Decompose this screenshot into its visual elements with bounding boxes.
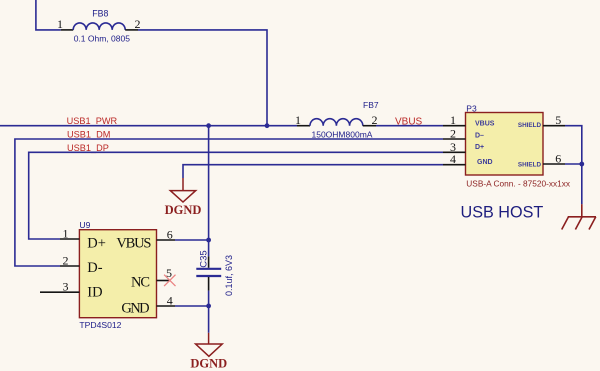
ground symbol DGND (upper): [170, 178, 195, 202]
wire U9 pin 4 to C35 bottom junction: [175, 305, 209, 307]
wire USB1_DP to U9 pin 1 and P3 pin 3: [29, 152, 443, 239]
svg-text:VBUS: VBUS: [116, 235, 151, 251]
wire P3 shield pins to chassis ground: [565, 126, 582, 205]
U9 pin 3 (ID), unconnected stub: [40, 280, 103, 301]
junction: VBUS tap to U9/C35: [206, 123, 211, 128]
svg-text:USB1_DM: USB1_DM: [67, 130, 110, 140]
svg-text:4: 4: [450, 152, 456, 166]
svg-text:2: 2: [135, 17, 141, 31]
svg-text:1: 1: [295, 113, 301, 127]
svg-text:1: 1: [57, 17, 63, 31]
junction at shield bus: [579, 162, 584, 167]
svg-text:D–: D–: [475, 132, 484, 139]
wire DGND to P3 pin 4 (GND): [183, 165, 443, 178]
svg-text:6: 6: [555, 152, 561, 166]
U9 pin 5 (NC): [131, 266, 172, 291]
IC U9 body: [79, 230, 156, 318]
svg-text:P3: P3: [466, 104, 477, 114]
svg-text:SHIELD: SHIELD: [518, 122, 542, 129]
svg-text:FB7: FB7: [363, 100, 379, 110]
svg-text:FB8: FB8: [92, 8, 108, 18]
svg-text:2: 2: [450, 127, 456, 141]
connector P3 body: [466, 113, 544, 176]
svg-text:4: 4: [167, 293, 173, 307]
svg-text:0.1uf, 6V3: 0.1uf, 6V3: [224, 255, 234, 296]
svg-text:150OHM800mA: 150OHM800mA: [312, 129, 373, 139]
svg-text:1: 1: [450, 113, 456, 127]
svg-text:U9: U9: [79, 220, 90, 230]
ground symbol DGND (lower): [196, 333, 223, 357]
P3 pin 3 (D+): [443, 140, 484, 154]
svg-text:D+: D+: [87, 235, 106, 251]
svg-text:0.1 Ohm, 0805: 0.1 Ohm, 0805: [74, 34, 131, 44]
wire C35 bottom to U9 GND junction: [208, 291, 210, 333]
svg-text:TPD4S012: TPD4S012: [79, 320, 121, 330]
svg-text:SHIELD: SHIELD: [518, 161, 542, 168]
svg-text:DGND: DGND: [190, 357, 227, 371]
wire USB1_PWR bus: [0, 125, 297, 127]
svg-text:USB-A Conn. - 87520-xx1xx: USB-A Conn. - 87520-xx1xx: [466, 179, 571, 189]
svg-text:NC: NC: [131, 275, 149, 291]
svg-text:C35: C35: [199, 250, 210, 267]
ferrite bead FB7: [297, 119, 376, 126]
junction: FB8 output onto USB1_PWR: [265, 123, 270, 128]
svg-text:D+: D+: [475, 144, 484, 151]
U9 pin 1 (D+): [60, 226, 106, 251]
capacitor C35: [196, 256, 221, 290]
svg-text:2: 2: [63, 253, 69, 267]
wire VBUS to P3 pin 1: [376, 125, 443, 127]
svg-text:D-: D-: [87, 260, 102, 276]
chassis ground symbol: [562, 204, 596, 229]
svg-text:USB HOST: USB HOST: [461, 204, 544, 222]
U9 pin 2 (D-): [60, 253, 103, 276]
no-connect X on U9 pin 5: [164, 275, 175, 286]
svg-text:ID: ID: [87, 285, 102, 301]
svg-text:GND: GND: [121, 300, 149, 316]
U9 pin 6 (VBUS): [116, 227, 175, 251]
P3 pin 4 (GND): [443, 152, 493, 166]
wire VBUS tap down to U9 pin 6 / C35: [208, 126, 210, 257]
P3 pin 6 (SHIELD): [518, 152, 565, 169]
P3 pin 1 (VBUS): [443, 113, 495, 127]
P3 pin 2 (D-): [443, 127, 484, 141]
wire U9 pin 6 to C35: [175, 239, 209, 241]
U9 pin 4 (GND): [121, 293, 175, 316]
wire from top edge into FB8 pin 1: [36, 0, 61, 30]
wire USB1_DM to U9 pin 2 and P3 pin 2: [15, 139, 443, 266]
wire FB8 pin 2 down to USB1_PWR bus: [138, 30, 267, 126]
svg-text:USB1_PWR: USB1_PWR: [67, 116, 118, 126]
P3 pin 5 (SHIELD): [518, 113, 565, 129]
svg-text:5: 5: [555, 113, 561, 127]
svg-text:DGND: DGND: [165, 203, 202, 217]
junction at U9 GND / C35 bottom: [206, 304, 211, 309]
svg-text:VBUS: VBUS: [475, 120, 495, 127]
svg-text:GND: GND: [477, 159, 493, 166]
ferrite bead FB8: [61, 23, 138, 30]
junction at U9 VBUS / C35 top: [206, 238, 211, 243]
svg-text:6: 6: [167, 227, 173, 241]
svg-text:1: 1: [63, 226, 69, 240]
svg-text:3: 3: [63, 280, 69, 294]
